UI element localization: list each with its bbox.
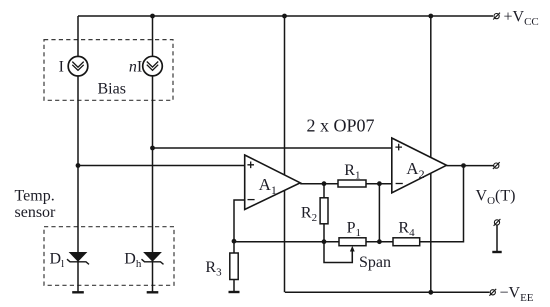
svg-text:VO(T): VO(T) bbox=[476, 188, 516, 208]
resistor R3 bbox=[230, 253, 238, 280]
wire A1 output to A2 inverting input (R1 row) bbox=[300, 183, 392, 185]
wire top +Vcc rail bbox=[78, 15, 493, 17]
wire R2 branch vertical bbox=[323, 184, 325, 242]
svg-text:sensor: sensor bbox=[15, 204, 57, 221]
svg-text:Span: Span bbox=[359, 254, 391, 271]
resistor R1 bbox=[338, 180, 366, 187]
svg-text:Bias: Bias bbox=[98, 81, 126, 98]
junction node dots bbox=[76, 14, 466, 295]
wire P1 wiper to left node (span loop) bbox=[324, 242, 352, 263]
wire feedback row node to R4 right then up bbox=[234, 166, 464, 242]
resistor R2 bbox=[320, 198, 328, 224]
terminal -Vee bbox=[489, 289, 496, 296]
op-amp A2 bbox=[392, 138, 447, 193]
resistor R4 bbox=[393, 238, 420, 246]
wire drop from rail to current source nI bbox=[152, 16, 154, 56]
temp sensor dashed box bbox=[44, 227, 174, 286]
current source I bbox=[68, 56, 88, 76]
bias dashed box bbox=[44, 40, 173, 101]
diode Dh bbox=[142, 253, 164, 265]
node Dl line / A1 + wire bbox=[76, 163, 81, 168]
op-amp A1 bbox=[245, 155, 301, 210]
end bar lower output terminal bbox=[492, 251, 501, 253]
svg-text:2 x OP07: 2 x OP07 bbox=[307, 116, 375, 136]
wire supply line through A1 (Vcc to Vee) bbox=[284, 16, 286, 292]
terminal Vo(T) bbox=[493, 162, 500, 169]
wire A1 inverting input feedback L bbox=[234, 200, 245, 241]
wire node Dl to A1 + input bbox=[78, 165, 245, 167]
svg-text:Temp.: Temp. bbox=[15, 188, 55, 205]
wire diode Dh cathode to bottom terminal bbox=[152, 261, 154, 292]
end bar terminal below Dh bbox=[147, 291, 159, 293]
end bar terminal below R3 bbox=[229, 291, 240, 293]
current source nI bbox=[143, 56, 163, 76]
node P1 / R4 junction bbox=[377, 239, 382, 244]
node A1 feedback / R3 top bbox=[232, 239, 237, 244]
end bar terminal below Dl bbox=[72, 291, 84, 293]
potentiometer P1 bbox=[339, 238, 366, 246]
node R2 bottom / wiper loop bbox=[322, 239, 327, 244]
node top rail / nI drop bbox=[150, 14, 155, 19]
wire left drop from rail to current source I bbox=[77, 16, 79, 57]
node R1 left / R2 top bbox=[322, 181, 327, 186]
wire from current source I down through diode Dl node bbox=[77, 76, 79, 253]
diode Dl bbox=[67, 253, 89, 265]
wire R1 right node down to P1/R4 node bbox=[378, 184, 380, 242]
terminal +Vcc bbox=[493, 13, 500, 20]
node bottom rail / A2 supply bbox=[428, 290, 433, 295]
node top rail / A2 supply line bbox=[428, 14, 433, 19]
node A2 output junction bbox=[461, 163, 466, 168]
svg-text:I: I bbox=[59, 58, 64, 75]
node Dh line / A2 + wire bbox=[150, 146, 155, 151]
svg-text:nI: nI bbox=[129, 58, 142, 75]
wire A2 output to Vo terminal bbox=[447, 165, 494, 167]
wire R3 top lead bbox=[233, 241, 235, 253]
wire supply line through A2 (Vcc to Vee) bbox=[430, 16, 432, 292]
wire bottom -Vee rail bbox=[285, 291, 490, 293]
wire diode Dl cathode to bottom terminal bbox=[77, 261, 79, 292]
wire R3 bottom lead bbox=[233, 280, 235, 292]
wire lower output terminal lead bbox=[496, 225, 498, 251]
wire from current source nI down to diode Dh bbox=[152, 76, 154, 253]
potentiometer P1 wiper arrow bbox=[351, 251, 353, 261]
node top rail / A1 supply line bbox=[282, 14, 287, 19]
terminal lower output bbox=[494, 219, 501, 226]
node R1 right / A2 - input bbox=[377, 181, 382, 186]
wire node Dh to A2 + input bbox=[153, 147, 392, 149]
